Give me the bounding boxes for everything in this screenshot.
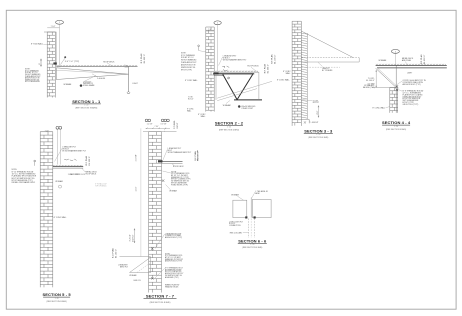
svg-text:8'-0": 8'-0" bbox=[317, 110, 319, 114]
section 3-3 canopy lower dashed bbox=[301, 66, 340, 68]
svg-text:3" TOTAL (1 1/2": 3" TOTAL (1 1/2" bbox=[95, 183, 107, 186]
svg-text:SECTION 6 - 6: SECTION 6 - 6 bbox=[238, 238, 267, 243]
svg-text:EL 100'-0": EL 100'-0" bbox=[366, 80, 375, 82]
svg-text:EL 100'-0": EL 100'-0" bbox=[144, 54, 146, 64]
svg-text:EL 100'-0": EL 100'-0" bbox=[424, 54, 426, 64]
section 5-5 deck lower line bbox=[53, 167, 83, 169]
section 4-4 grid balloon bbox=[391, 50, 399, 54]
svg-text:AND PLAN: AND PLAN bbox=[402, 59, 412, 62]
svg-text:LIGHT: LIGHT bbox=[132, 83, 138, 85]
section 3-3 masonry wall bbox=[292, 21, 301, 126]
section 5-5 bent plate symbols bbox=[64, 159, 76, 161]
section 2-2 masonry wall bbox=[206, 27, 214, 112]
svg-text:1 1/2" TYPE B DECK: 1 1/2" TYPE B DECK bbox=[70, 174, 86, 176]
svg-text:STEEL BEAM: STEEL BEAM bbox=[83, 84, 95, 87]
svg-text:108'-8": 108'-8" bbox=[177, 122, 179, 128]
section 3-3 base detail bbox=[301, 120, 309, 124]
svg-text:8" CONC WALL: 8" CONC WALL bbox=[185, 79, 198, 82]
svg-text:WALL: WALL bbox=[201, 115, 206, 118]
svg-text:R.F. PLAN: R.F. PLAN bbox=[194, 151, 197, 161]
section 2-2 truss top chord bbox=[215, 73, 254, 75]
section 7-7 anchor marks lower bbox=[151, 248, 154, 280]
section 3-3 furring strip bbox=[301, 33, 307, 120]
section 7-7 beam lines bbox=[162, 161, 183, 163]
section 2-2 anchor bolt symbol bbox=[198, 45, 200, 47]
svg-text:W BEAM: W BEAM bbox=[64, 83, 72, 86]
svg-text:(REF SECTION 4 BHD): (REF SECTION 4 BHD) bbox=[219, 129, 239, 131]
section 4-4 beam flange bbox=[377, 67, 447, 69]
section 7-7 grid balloons right bbox=[161, 119, 164, 122]
svg-text:ARM: ARM bbox=[255, 192, 259, 195]
svg-text:SECTION 3 - 3: SECTION 3 - 3 bbox=[304, 129, 333, 134]
svg-text:11'-5": 11'-5" bbox=[136, 186, 138, 191]
svg-text:EA SIDE (TYP): EA SIDE (TYP) bbox=[363, 86, 375, 89]
svg-text:ADHESIVE (TYP): ADHESIVE (TYP) bbox=[165, 276, 179, 279]
section 2-2 weld note bbox=[238, 105, 240, 107]
svg-text:8" CONC WALL: 8" CONC WALL bbox=[372, 107, 385, 110]
section 2-2 bolt symbol bbox=[228, 77, 230, 79]
svg-text:1 : 20: 1 : 20 bbox=[55, 298, 59, 300]
svg-text:1/2" 5/8": 1/2" 5/8" bbox=[160, 124, 166, 126]
svg-text:INSTALL PER MANUF SPEC: INSTALL PER MANUF SPEC bbox=[12, 181, 36, 184]
section 4-4 grid line bbox=[394, 53, 396, 65]
section 2-2 grid balloon bbox=[214, 21, 221, 25]
svg-text:SECTION 1 - 1: SECTION 1 - 1 bbox=[72, 99, 101, 104]
section 5-5 light circle bbox=[59, 185, 62, 188]
section 7-7 top of wall line bbox=[143, 131, 177, 133]
svg-text:W BEAM: W BEAM bbox=[223, 104, 231, 107]
svg-text:(REF SECTION B BHD): (REF SECTION B BHD) bbox=[46, 301, 67, 303]
section 7-7 bracket triangle bbox=[130, 257, 151, 272]
svg-text:B.O. PLAN: B.O. PLAN bbox=[112, 248, 115, 258]
section 2-2 roof deck hachure bbox=[215, 71, 258, 72]
section 1-1 roof deck hachure bbox=[57, 65, 137, 66]
svg-text:TOP OF DECK): TOP OF DECK) bbox=[95, 185, 107, 187]
svg-text:1 : 20: 1 : 20 bbox=[394, 126, 398, 128]
section 5-5 deck hachure bbox=[53, 165, 82, 166]
svg-text:1 : 20: 1 : 20 bbox=[316, 134, 320, 136]
section 1-1 right end bearing bbox=[125, 65, 129, 67]
svg-text:1'-5 5/8": 1'-5 5/8" bbox=[136, 154, 138, 162]
svg-text:3'-0" 1'-0" (TYP): 3'-0" 1'-0" (TYP) bbox=[65, 61, 80, 63]
svg-text:ROOF DECK: ROOF DECK bbox=[173, 166, 184, 168]
section 7-7 dimension line bbox=[146, 127, 171, 129]
section 2-2 roof slope line bbox=[217, 81, 272, 98]
svg-text:ANCHOR BOLT (TYP): ANCHOR BOLT (TYP) bbox=[403, 83, 421, 86]
section 1-1 bearing plate bbox=[53, 62, 56, 64]
section 2-2 truss diagonal right bbox=[237, 74, 253, 99]
section 3-3 canopy bottom bbox=[301, 61, 359, 63]
svg-text:WALL: WALL bbox=[286, 72, 291, 75]
section 1-1 wall top line bbox=[44, 31, 56, 33]
svg-text:W BEAM: W BEAM bbox=[129, 274, 136, 277]
svg-text:R.F. PLAN: R.F. PLAN bbox=[140, 53, 143, 63]
svg-text:8" T300 WALL: 8" T300 WALL bbox=[31, 43, 43, 46]
svg-text:(REF SECTION 4 BHD): (REF SECTION 4 BHD) bbox=[308, 137, 328, 139]
section 7-7 bearing plate bbox=[158, 160, 163, 162]
section 7-7 floor line bbox=[120, 256, 151, 258]
svg-text:EL 8'-0": EL 8'-0" bbox=[313, 102, 320, 104]
section 2-2 truss bottom chord bbox=[234, 99, 262, 101]
svg-text:FIXED WORK (TYP): FIXED WORK (TYP) bbox=[171, 184, 188, 186]
svg-text:7 1/4": 7 1/4" bbox=[51, 26, 56, 28]
section 7-7 left dimension bbox=[134, 229, 136, 244]
section 1-1 left dimension bbox=[40, 59, 42, 67]
section 5-5 grid balloons bbox=[56, 126, 59, 129]
section 5-5 masonry wall bbox=[40, 132, 53, 288]
section 1-1 inner face line bbox=[55, 32, 57, 66]
svg-text:OTHER JOIST: OTHER JOIST bbox=[241, 108, 254, 110]
svg-text:CONNECTION: CONNECTION bbox=[229, 225, 241, 227]
svg-text:(REF SECTION 4 BHD): (REF SECTION 4 BHD) bbox=[242, 247, 262, 249]
section 7-7 left extension line bbox=[140, 128, 142, 256]
section 1-1 masonry wall bbox=[47, 32, 55, 98]
svg-text:ROOF DECK: ROOF DECK bbox=[103, 61, 115, 63]
svg-text:1 : 20: 1 : 20 bbox=[227, 126, 231, 128]
svg-text:EL 100'-0": EL 100'-0" bbox=[115, 249, 117, 258]
svg-text:1 : 20: 1 : 20 bbox=[250, 244, 254, 246]
section 7-7 grid balloons left bbox=[145, 119, 148, 122]
section 2-2 roof slope line 2 bbox=[217, 89, 257, 101]
svg-text:R.F. PLAN: R.F. PLAN bbox=[420, 54, 423, 64]
svg-text:BY OTHERS: BY OTHERS bbox=[322, 70, 333, 72]
svg-text:R.F. PLAN: R.F. PLAN bbox=[85, 155, 88, 165]
section 1-1 top anchor dot bbox=[64, 56, 66, 58]
svg-text:8" CONC WALL: 8" CONC WALL bbox=[277, 78, 290, 81]
svg-text:GROUT: GROUT bbox=[312, 122, 319, 124]
svg-text:EL 100'-0": EL 100'-0" bbox=[267, 64, 269, 74]
section 6-6 column hidden lines bbox=[248, 219, 250, 238]
section 5-5 grid lines bbox=[56, 129, 58, 164]
section 1-1 roof deck line bbox=[56, 66, 137, 68]
svg-text:BENT PLT: BENT PLT bbox=[120, 266, 128, 268]
svg-text:W BEAM: W BEAM bbox=[169, 190, 177, 193]
svg-text:SECTION 2 - 2: SECTION 2 - 2 bbox=[215, 121, 244, 126]
section 4-4 deck hachure bbox=[376, 64, 446, 65]
section 1-1 angle weld note bbox=[80, 85, 82, 87]
section 3-3 roof diagonal bbox=[301, 31, 353, 58]
section 6-6 right beam plan bbox=[252, 200, 271, 218]
svg-text:L 4x3x1/4: L 4x3x1/4 bbox=[97, 78, 105, 80]
section 2-2 bearing plate bbox=[213, 73, 218, 75]
svg-text:ANCHOR BOLT (TYP): ANCHOR BOLT (TYP) bbox=[165, 236, 182, 239]
svg-text:W/ NUT/WASHER BENT PLT: W/ NUT/WASHER BENT PLT bbox=[223, 58, 248, 61]
svg-text:GROUT FILL (TYP): GROUT FILL (TYP) bbox=[403, 104, 419, 106]
section 1-1 wall width dimension bbox=[47, 27, 59, 29]
svg-text:LIGHT: LIGHT bbox=[407, 73, 413, 75]
section 2-2 truss right post bbox=[258, 72, 260, 100]
svg-text:EPOXY (TYP): EPOXY (TYP) bbox=[181, 69, 192, 71]
svg-text:W/ NUT/WASHER BENT PLT: W/ NUT/WASHER BENT PLT bbox=[62, 150, 87, 153]
svg-text:8" CONC: 8" CONC bbox=[187, 109, 194, 111]
section 1-1 tapered beam bbox=[56, 68, 128, 80]
svg-text:SECTION 4 - 4: SECTION 4 - 4 bbox=[382, 120, 411, 125]
svg-text:HEADED STUDS: HEADED STUDS bbox=[165, 285, 179, 288]
section 3-3 height dimension bbox=[318, 106, 320, 118]
svg-text:EPOXY ADHESIVE: EPOXY ADHESIVE bbox=[25, 80, 41, 83]
svg-text:EL 100'-0": EL 100'-0" bbox=[198, 151, 200, 160]
section 7-7 masonry wall bbox=[149, 132, 162, 293]
svg-text:(REF. SECTION: STAIRS): (REF. SECTION: STAIRS) bbox=[75, 107, 97, 110]
section 2-2 wall face line bbox=[215, 74, 217, 100]
section 2-2 roof deck line bbox=[214, 71, 259, 73]
svg-text:7 1/4": 7 1/4" bbox=[154, 126, 159, 128]
section 3-3 canopy right edge bbox=[358, 58, 360, 62]
svg-text:3'-2 1/2": 3'-2 1/2" bbox=[130, 234, 132, 242]
svg-text:ROOF DECK: ROOF DECK bbox=[247, 66, 259, 68]
svg-text:R.F. PLAN: R.F. PLAN bbox=[263, 63, 266, 73]
svg-text:HSS COL: HSS COL bbox=[134, 280, 141, 282]
section 1-1 grid line bbox=[59, 24, 61, 66]
section 4-4 left dimension bbox=[375, 70, 377, 88]
svg-text:1 : 20: 1 : 20 bbox=[84, 105, 88, 107]
section 1-1 post anchor bbox=[127, 91, 130, 93]
svg-text:(REF SECTION 4 BHD): (REF SECTION 4 BHD) bbox=[386, 129, 406, 131]
svg-text:W BEAM: W BEAM bbox=[55, 180, 63, 183]
section 4-4 tos line bbox=[372, 87, 396, 89]
svg-text:EL 8'-0": EL 8'-0" bbox=[132, 234, 134, 241]
section 4-4 anchor marks bbox=[396, 85, 399, 91]
section 6-6 left beam plan bbox=[233, 200, 247, 217]
svg-text:R.F. PLAN: R.F. PLAN bbox=[271, 54, 274, 64]
section 4-4 bracket diagonal bbox=[376, 68, 396, 87]
svg-text:EL 100'-0": EL 100'-0" bbox=[89, 156, 91, 166]
section 7-7 anchor marks mid bbox=[162, 180, 165, 182]
svg-text:EL 8'-0": EL 8'-0" bbox=[188, 99, 194, 101]
svg-text:T.O.W EL: T.O.W EL bbox=[174, 119, 176, 128]
svg-text:ANCHOR BOLT (TYP): ANCHOR BOLT (TYP) bbox=[165, 260, 182, 263]
section 4-4 masonry wall bbox=[390, 88, 398, 113]
section 3-3 canopy top dashed bbox=[301, 57, 359, 59]
section 7-7 right dimension bbox=[197, 150, 199, 161]
svg-text:EL 100'-0": EL 100'-0" bbox=[275, 54, 277, 63]
section 6-6 center line bbox=[250, 198, 252, 218]
svg-text:T.O.W.: T.O.W. bbox=[188, 97, 193, 99]
svg-text:ROOF DECK: ROOF DECK bbox=[86, 173, 97, 175]
section 2-2 bent plate symbols bbox=[222, 66, 229, 71]
svg-text:W BEAM: W BEAM bbox=[379, 59, 387, 62]
svg-text:W/ NUT/WASHER BENT PLT: W/ NUT/WASHER BENT PLT bbox=[168, 151, 193, 154]
section 1-1 hanger post bbox=[128, 67, 130, 92]
svg-text:W BEAM: W BEAM bbox=[231, 194, 239, 197]
svg-text:(REF SECTION: B BHD): (REF SECTION: B BHD) bbox=[150, 302, 171, 304]
section 6-6 weld plates bbox=[245, 216, 247, 218]
svg-text:HSS COLUMN: HSS COLUMN bbox=[230, 232, 243, 234]
section 2-2 truss diagonal left bbox=[223, 74, 237, 99]
section 5-5 deck line bbox=[53, 166, 83, 168]
svg-text:SECTION 5 - 5: SECTION 5 - 5 bbox=[42, 292, 71, 297]
section 4-4 deck line bbox=[376, 64, 447, 66]
section 2-2 grid line bbox=[217, 25, 219, 72]
svg-text:8" CONC WALL: 8" CONC WALL bbox=[54, 216, 67, 219]
section 4-4 column face line bbox=[395, 65, 397, 112]
svg-text:1'-2 5/8": 1'-2 5/8" bbox=[147, 124, 153, 126]
section 7-7 grid dashed line bbox=[164, 129, 166, 132]
svg-text:SECTION 7 - 7: SECTION 7 - 7 bbox=[146, 294, 175, 299]
section 5-5 anchor bolt symbol bbox=[34, 160, 36, 162]
section 1-1 grid balloon bbox=[56, 20, 64, 24]
svg-text:1 : 20: 1 : 20 bbox=[158, 299, 162, 301]
